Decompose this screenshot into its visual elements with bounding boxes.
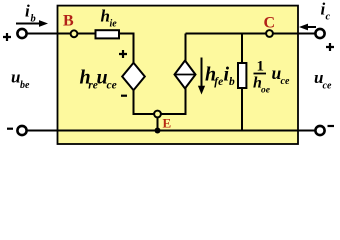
wire: h_ie to top of controlled voltage source bbox=[119, 34, 134, 64]
current arrow i_b bbox=[16, 2, 48, 27]
polarity + of h_re source bbox=[119, 50, 127, 58]
label u_ce (inside box) bbox=[272, 63, 290, 87]
polarity - of u_be bbox=[7, 128, 13, 130]
svg-text:B: B bbox=[63, 13, 74, 30]
svg-text:fe: fe bbox=[214, 76, 223, 88]
polarity - of h_re source bbox=[121, 95, 127, 97]
terminal: emitter output (bottom-right) bbox=[315, 126, 324, 135]
wire: top rail of output side bbox=[186, 33, 315, 35]
terminal: base input (top-left) bbox=[17, 29, 26, 38]
svg-text:1: 1 bbox=[257, 59, 265, 75]
svg-text:C: C bbox=[264, 15, 276, 32]
node C bbox=[264, 15, 276, 37]
wire: down from top rail to resistor 1/h_oe bbox=[241, 34, 243, 64]
svg-text:i: i bbox=[25, 2, 30, 21]
resistor 1/h_oe bbox=[238, 59, 271, 96]
resistor h_ie bbox=[96, 7, 120, 39]
dependent voltage source h_re*u_ce (diamond) bbox=[80, 63, 145, 92]
node E bbox=[154, 111, 171, 131]
wire: E stem to bottom rail bbox=[157, 117, 159, 131]
wire: resistor bottom to bottom rail bbox=[241, 88, 243, 131]
wire: down from top rail to current source bbox=[185, 34, 187, 62]
terminal: emitter input (bottom-left) bbox=[17, 126, 26, 135]
svg-text:ce: ce bbox=[323, 81, 332, 92]
polarity - of u_ce bbox=[328, 125, 335, 127]
terminal: collector output (top-right) bbox=[315, 29, 324, 38]
wire: top-left rail from input terminal to h_ie bbox=[27, 33, 95, 35]
svg-text:E: E bbox=[163, 116, 172, 131]
wire: voltage source bottom to emitter joint bbox=[134, 88, 186, 114]
junction dot on bottom rail bbox=[155, 128, 161, 134]
wire: bottom rail bbox=[27, 130, 315, 132]
svg-text:b: b bbox=[31, 14, 36, 25]
node B bbox=[63, 13, 77, 38]
svg-text:ce: ce bbox=[281, 76, 290, 87]
label h_fe i_b bbox=[205, 64, 235, 88]
svg-text:be: be bbox=[20, 80, 30, 91]
two-port box outline bbox=[58, 6, 299, 144]
svg-text:oe: oe bbox=[261, 86, 271, 96]
polarity + of u_be bbox=[3, 33, 11, 41]
label u_ce (outside right) bbox=[314, 68, 332, 92]
svg-text:ie: ie bbox=[110, 19, 118, 30]
current arrow i_c bbox=[299, 0, 331, 30]
svg-text:c: c bbox=[326, 12, 331, 23]
dependent current source h_fe*i_b (diamond with bar) bbox=[175, 61, 196, 89]
polarity + of u_ce bbox=[326, 43, 334, 51]
arrow of controlled current direction bbox=[198, 58, 205, 95]
label u_be bbox=[11, 68, 30, 92]
svg-text:b: b bbox=[229, 76, 235, 88]
svg-text:ce: ce bbox=[107, 79, 117, 91]
